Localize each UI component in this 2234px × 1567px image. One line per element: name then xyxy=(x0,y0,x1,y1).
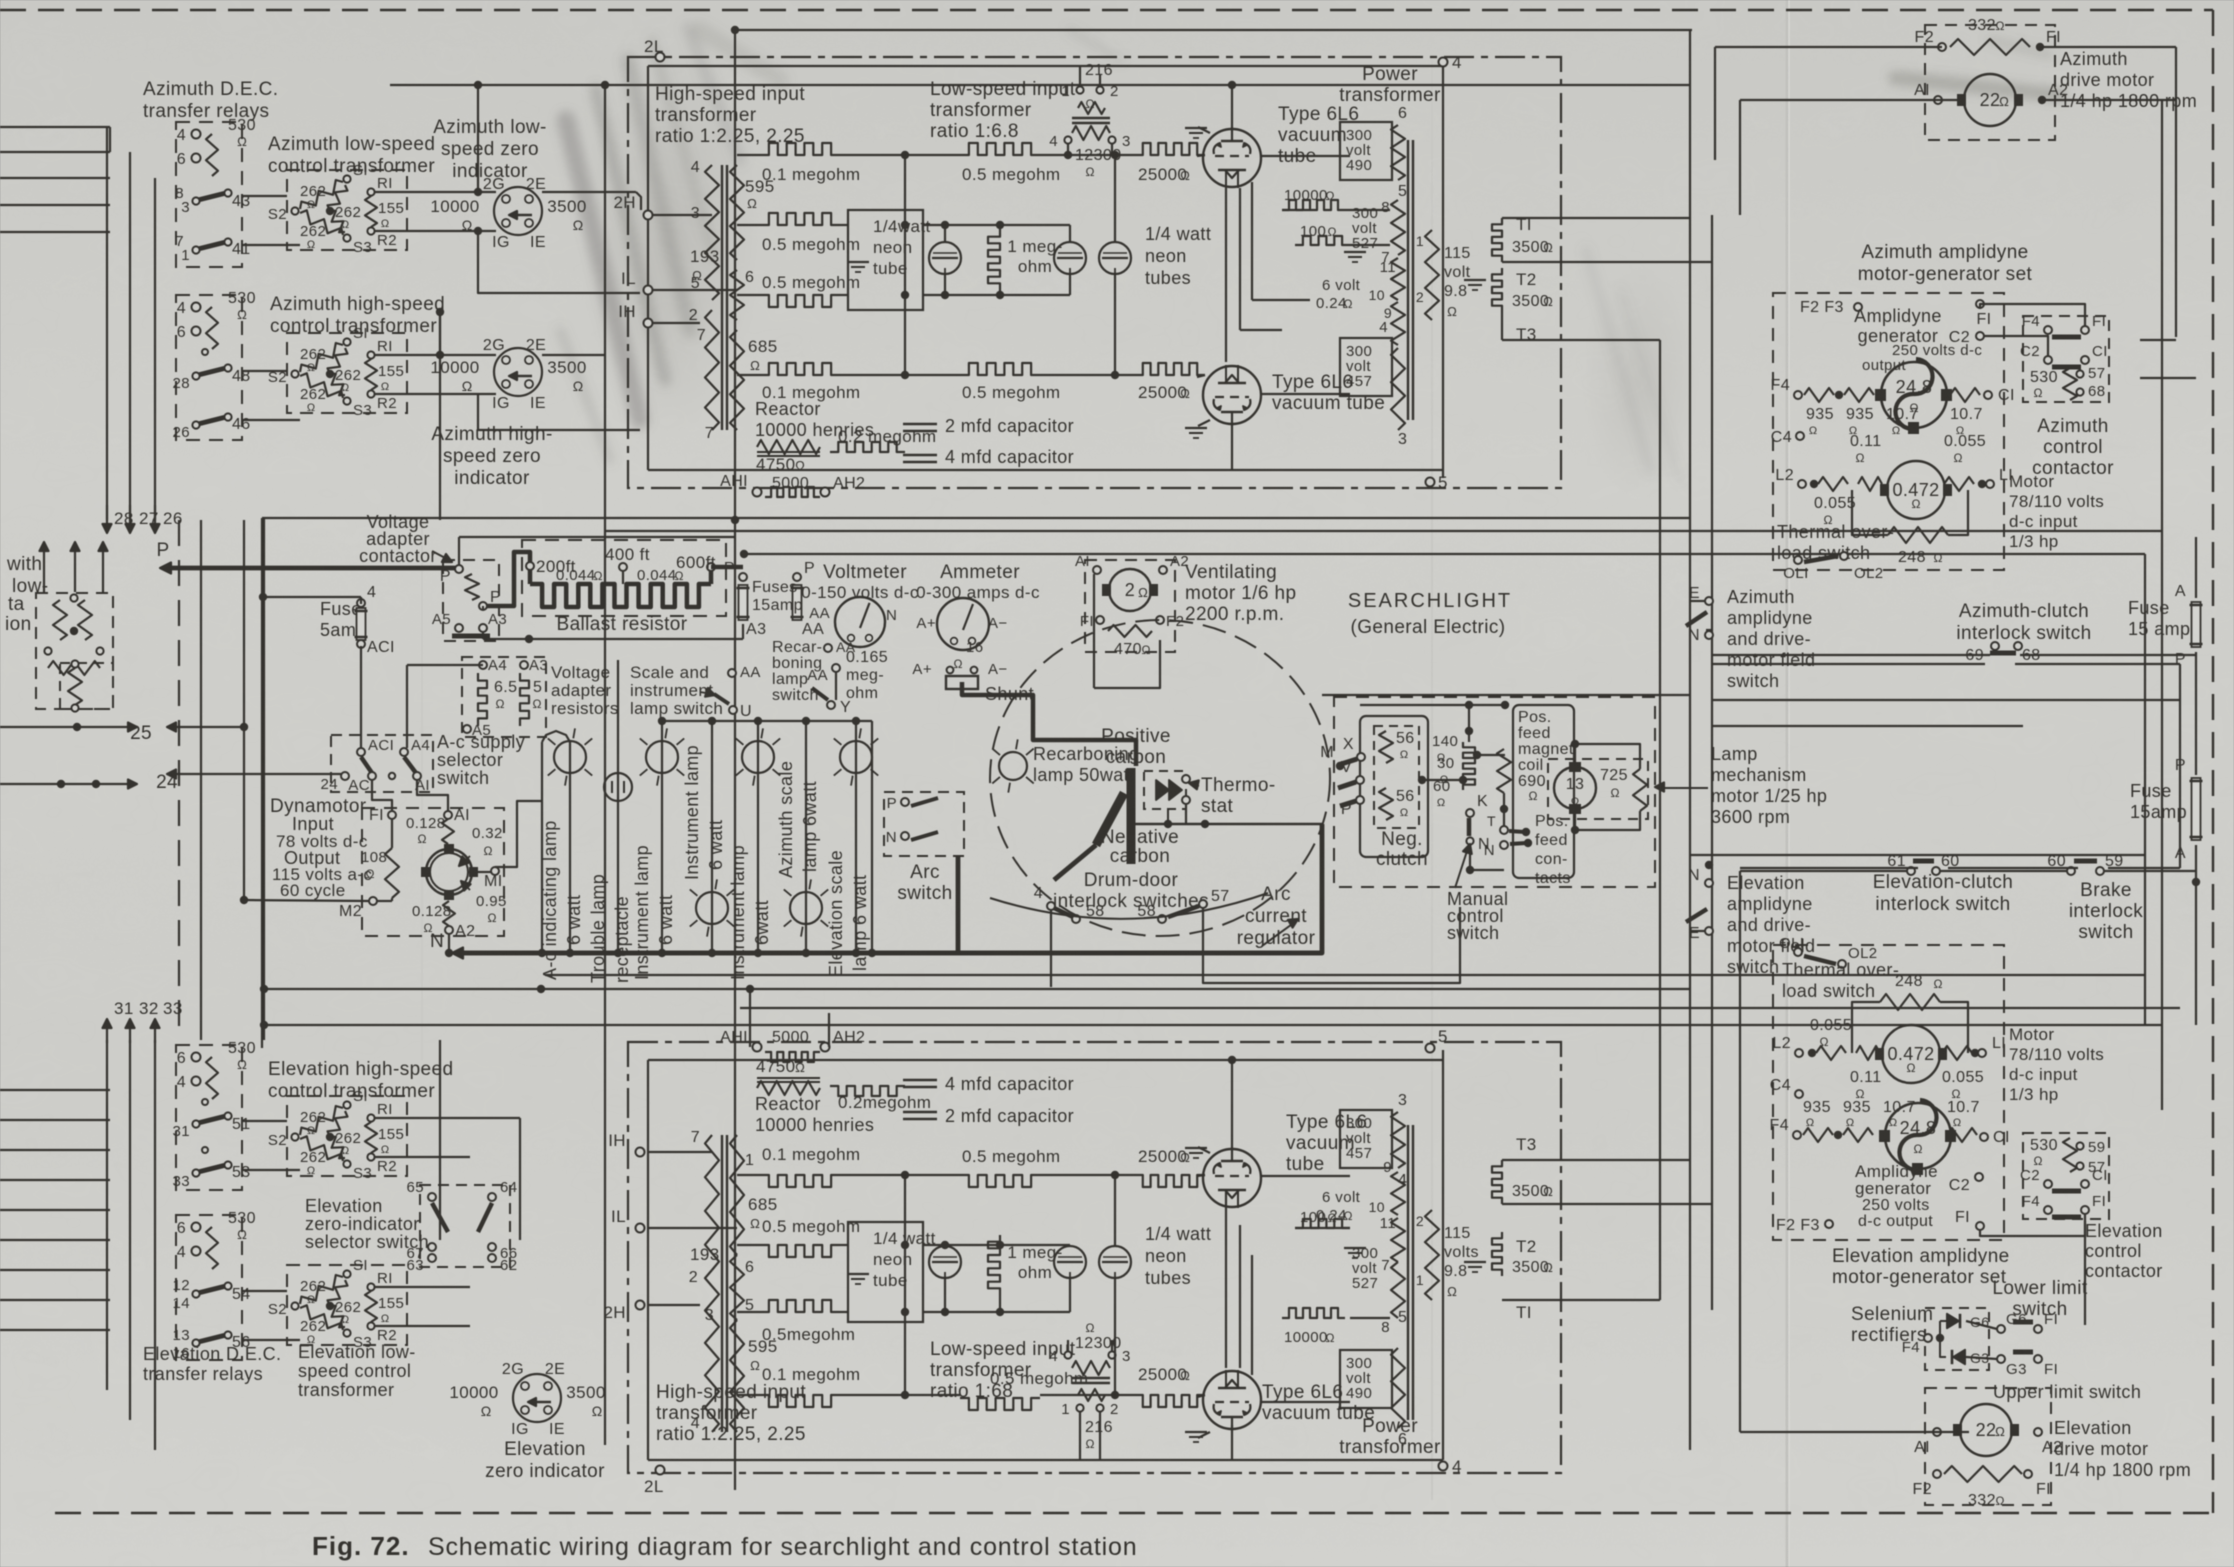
left mid dashed border x179 xyxy=(178,520,180,1040)
wire from contact 4 down xyxy=(1050,910,1052,987)
power transformer secondary 115v bottom xyxy=(1425,1210,1439,1300)
terminal IL bottom xyxy=(636,1224,645,1233)
amplifier inner frame bottom xyxy=(648,1459,1443,1461)
6L6 tube bottom unit upper xyxy=(1203,1149,1261,1207)
junction dots on buses xyxy=(601,81,609,89)
left mid bus x201 xyxy=(200,520,202,1040)
pos feed motor 13 dashed box xyxy=(1548,759,1648,819)
wire field switch connects xyxy=(1690,600,1705,602)
amp outputs to right bottom xyxy=(1502,1159,1690,1161)
far right vertical x2145 xyxy=(2144,554,2146,1025)
amp bottom row2 wires xyxy=(737,1244,760,1246)
T N contacts xyxy=(1500,826,1508,834)
elev relay1 contact 53 xyxy=(198,1165,226,1172)
positive carbon feed wires xyxy=(962,682,1136,766)
wire elevation F1 to contactor xyxy=(1980,1214,2085,1236)
instrument lamp 2 xyxy=(711,721,713,953)
amp row2 wires xyxy=(737,224,760,226)
main vertical bus x440 xyxy=(439,310,441,520)
reactor coil xyxy=(757,440,820,454)
tube wires bottom unit xyxy=(1231,1425,1233,1460)
high-speed input transformer windings top xyxy=(705,165,719,300)
left wires into middle xyxy=(261,518,263,558)
left mid bus x264 xyxy=(263,518,265,1040)
AA U switch xyxy=(728,669,736,677)
dynamotor circle xyxy=(426,849,472,895)
resistor 332 elevation xyxy=(1933,1470,1941,1478)
dynamotor box xyxy=(362,808,504,936)
a-c indicating lamp xyxy=(569,742,571,953)
resistor 0.5 megohm row2 xyxy=(760,213,840,225)
brake interlock xyxy=(2067,867,2075,875)
capacitor 4 mfd bottom xyxy=(903,1079,937,1082)
relay1 contact 43 xyxy=(198,193,226,200)
left data box upper xyxy=(36,593,113,709)
neon tube 3 bottom xyxy=(1099,1246,1131,1278)
dynamotor F1 A1 xyxy=(388,811,396,819)
interlock arc solid xyxy=(990,893,1268,919)
neon3 column wires xyxy=(1114,155,1116,242)
wire mid right horizontals xyxy=(1712,699,2180,701)
wire top bus y85 xyxy=(390,84,1690,86)
elevation low-speed control transformer xyxy=(287,1265,407,1345)
amp vertical x905 bottom xyxy=(904,1175,906,1395)
amp row1 wires xyxy=(737,154,760,156)
wire drive motor vertical right xyxy=(2175,47,2177,337)
elevation amplidyne resistors xyxy=(1793,1131,1801,1139)
C4 L2 row xyxy=(1796,432,1804,440)
outer dashed border right xyxy=(2212,10,2214,1513)
neon tube 1 bottom xyxy=(929,1246,961,1278)
6L6 tube bottom unit lower xyxy=(1203,1371,1261,1429)
elevation drive motor box xyxy=(1925,1388,2051,1505)
left arrows right xyxy=(0,726,133,728)
long wire y1008 xyxy=(740,1007,2180,1009)
resistor 0.2 megohm xyxy=(830,442,905,452)
wires azimuth drive xyxy=(1715,46,1942,48)
long wire y989 xyxy=(264,988,1690,990)
resistor 0.1 megohm bottom row4 xyxy=(760,1395,840,1407)
mid horizontal bus y518 xyxy=(262,517,1690,519)
azimuth high-speed zero indicator xyxy=(494,348,542,396)
outer dashed border bottom xyxy=(55,1512,2213,1514)
left stub lines bottom xyxy=(0,1089,110,1091)
trouble lamp receptacle xyxy=(617,660,619,953)
clutch top wires xyxy=(1322,694,1690,696)
terminal 5 bottom xyxy=(1426,478,1435,487)
quarter watt neon tube box bottom xyxy=(848,1222,923,1322)
resistor 0.1 megohm top row xyxy=(760,143,840,155)
selector lower contacts xyxy=(428,1254,436,1262)
searchlight dashed circle xyxy=(990,620,1330,936)
power transformer pin wires xyxy=(1392,151,1398,153)
relay box azimuth 2 xyxy=(176,295,242,440)
resistor 0.1 megohm row4 xyxy=(760,363,840,375)
main vertical bus x262 xyxy=(261,518,263,1048)
P feeder arrow left xyxy=(163,566,459,571)
terminal 2H xyxy=(644,211,653,220)
K contact xyxy=(1466,809,1474,817)
tube1 wires xyxy=(1231,85,1233,128)
capacitor 4 mfd xyxy=(903,454,937,457)
lamp top connector xyxy=(662,720,872,722)
resistor 0.2 megohm bottom xyxy=(830,1086,905,1096)
amp unit inner frame top bottomunit xyxy=(648,1059,1443,1061)
resistor 25000 top xyxy=(1135,143,1205,155)
relay1 contact 41 xyxy=(198,242,226,249)
amp outputs to right xyxy=(1502,217,1690,219)
long wire y1025 xyxy=(264,1024,2162,1026)
main vertical bus x605 xyxy=(604,85,606,1445)
resistor 0.5 megohm mid bottom xyxy=(960,1175,1040,1187)
terminal 2L xyxy=(656,53,665,62)
paper mottle xyxy=(0,0,1,1)
wire contactor to right buses xyxy=(2089,329,2196,331)
mid horizontal bus y531 xyxy=(605,530,2162,532)
recarboning lamp xyxy=(999,752,1027,780)
resistor 530 relay1 xyxy=(206,134,218,176)
amplifier unit dash-dot box bottom xyxy=(628,1042,1561,1473)
amplidyne motor azimuth xyxy=(1887,461,1945,519)
wire 28 27 26 arrows xyxy=(106,505,108,530)
resistor 530 relay2 xyxy=(206,307,218,349)
neon tube 1 xyxy=(929,242,961,274)
resistor 530 elev relay1 xyxy=(206,1057,218,1099)
wire lamp mech to right xyxy=(1690,789,1698,791)
elevation zero indicator xyxy=(513,1374,561,1422)
resistor 0.5 megohm mid2 xyxy=(960,363,1040,375)
elevation clutch interlock xyxy=(1907,867,1915,875)
terminal 2L bottom xyxy=(656,1466,665,1475)
wire left stubs angled xyxy=(109,127,111,152)
instrument lamp 3 xyxy=(757,721,759,953)
pos feed clutch outer dashed box xyxy=(1334,697,1655,887)
resistor 1 megohm block xyxy=(988,230,1000,290)
amplifier unit dash-dot box top xyxy=(628,57,1561,488)
6L6 tube top xyxy=(1203,129,1261,187)
right vertical bus x1690 xyxy=(1689,30,1691,1450)
terminal IH xyxy=(644,319,653,328)
terminal 4 bottom xyxy=(1439,1462,1448,1471)
wires R1 R2 to high-speed indicator xyxy=(375,354,496,356)
resistor 25000 bottom xyxy=(1135,363,1205,375)
elevation drive motor xyxy=(1960,1404,2012,1456)
wire A3 row xyxy=(482,632,484,639)
wire azimuth interlock row right xyxy=(1712,654,1990,656)
resistor 332 azimuth drive xyxy=(1938,43,1946,51)
wire elevation C2 to contactor xyxy=(1979,1180,2048,1188)
amp row4 wires xyxy=(737,374,760,376)
elev relay2 contact 56 xyxy=(198,1335,226,1342)
low-speed input transformer xyxy=(1076,86,1083,93)
azimuth high-speed control transformer xyxy=(287,333,407,413)
C2 F1 elevation xyxy=(1975,1173,1983,1181)
resistor 0.5 megohm mid xyxy=(960,143,1040,155)
C2 terminal xyxy=(1976,332,1984,340)
resistor 25000 bottom row2 xyxy=(1135,1395,1205,1407)
T1 resistor xyxy=(1492,218,1502,262)
resistor 0.5 megohm mid2 bottom xyxy=(960,1398,1040,1410)
selector switch box xyxy=(420,1185,510,1267)
ballast resistor thick wiring xyxy=(482,606,484,610)
wire x1740 elevation column xyxy=(1739,871,1741,1432)
elevation control contactor box xyxy=(2023,1133,2109,1219)
C2 C1 contact xyxy=(2044,356,2052,364)
searchlight thick bus xyxy=(956,856,961,953)
T2 resistor xyxy=(1492,268,1502,312)
fuses 15 amp xyxy=(739,573,747,581)
elevation amplidyne generator xyxy=(1885,1103,1951,1169)
ventilating motor xyxy=(1085,560,1175,652)
resistor 0.5 megohm row3 xyxy=(760,295,840,307)
wires elevation transformers xyxy=(242,1120,287,1122)
amp bottom row4 wires xyxy=(737,1394,760,1396)
inner clutch frame xyxy=(1360,716,1428,857)
voltage adapter contactor box xyxy=(443,560,499,641)
wire contactor F1 down to limit switch xyxy=(2084,1221,2086,1325)
wire amplidyne F1 to contactor xyxy=(1980,304,2085,326)
relay box elevation 2 xyxy=(176,1215,242,1360)
high-speed input transformer windings bottom xyxy=(705,1135,719,1270)
wire right side from T outputs xyxy=(1659,340,1661,1300)
resistor 140 30 60 xyxy=(1463,742,1475,790)
56 resistors xyxy=(1374,726,1419,828)
wire top bus y30 xyxy=(735,29,1692,31)
mid horizontal bus y545 xyxy=(744,553,2145,555)
lamp columns xyxy=(542,731,570,742)
F4 F1 contact elevation xyxy=(2044,1206,2052,1214)
neon3 column wires bottom xyxy=(1114,1175,1116,1246)
terminal 2H bottom xyxy=(636,1301,645,1310)
wire y726 right xyxy=(1712,725,2023,727)
resistor 248 elevation xyxy=(1880,994,1940,1010)
far right vertical x2162 xyxy=(2161,531,2163,1110)
voltage adapter resistors box xyxy=(462,657,546,737)
C4 elevation xyxy=(1795,1090,1803,1098)
azimuth low-speed zero indicator xyxy=(494,187,542,235)
azimuth low-speed control transformer xyxy=(287,170,407,250)
capacitor 2 mfd xyxy=(903,423,937,426)
wire elevation interlock row xyxy=(1740,867,1918,869)
elevation amplidyne dashed box xyxy=(1773,945,2004,1240)
azimuth drive motor box xyxy=(1925,25,2055,140)
relay box azimuth 1 xyxy=(176,122,242,267)
elevation high-speed control transformer xyxy=(287,1096,407,1176)
elev relay2 contact 54 xyxy=(198,1286,226,1293)
resistor AH1 5000 AH2 xyxy=(753,488,762,497)
ballast resistor xyxy=(530,584,711,607)
manual control contacts xyxy=(1357,753,1365,761)
outer dashed border top xyxy=(0,9,2213,11)
wires field switch azimuth xyxy=(1706,629,1712,631)
amp bottom row1 wires xyxy=(737,1174,760,1176)
wire 31 32 33 arrows xyxy=(106,1022,108,1043)
N feeder arrow left xyxy=(455,951,1322,956)
tube2 wires xyxy=(1231,425,1233,470)
elevation field switch xyxy=(1705,879,1713,887)
elevation amplidyne motor xyxy=(1882,1025,1940,1083)
azimuth control contactor box xyxy=(2023,316,2109,402)
left data box arrows up xyxy=(43,545,45,592)
long wire y975 xyxy=(545,974,2145,976)
far right fuse wire x2196 xyxy=(2195,537,2197,598)
resistor 248 azimuth xyxy=(1888,527,1948,543)
25 arrow xyxy=(170,726,244,728)
wire azimuth interlock row xyxy=(1712,663,1985,665)
capacitor 2 mfd bottom xyxy=(903,1111,937,1114)
azimuth drive motor xyxy=(1964,74,2016,126)
quarter watt neon tube box xyxy=(848,210,923,310)
wires selector xyxy=(360,646,362,748)
negative carbon xyxy=(1096,793,1124,845)
vertical wires into bottom amp xyxy=(749,989,751,1047)
thermostat N wire xyxy=(1131,823,1322,825)
terminal 5 top xyxy=(1426,1044,1435,1053)
dynamotor A1 wire to selector xyxy=(417,780,448,811)
24 arrow xyxy=(170,773,345,775)
dynamotor M2 xyxy=(369,897,377,905)
azimuth scale lamp xyxy=(805,721,807,953)
resistor 530 elev relay2 xyxy=(206,1227,218,1269)
upper limit switch xyxy=(1997,1355,2005,1363)
6L6 tube bottom xyxy=(1203,366,1261,424)
ls transformer wires bottom xyxy=(1079,1412,1081,1460)
relay2 contact 48 xyxy=(198,368,226,375)
wires around azimuth contactor xyxy=(2140,339,2176,341)
amp unit inner frame bottom xyxy=(648,469,1443,471)
neon tube 3 xyxy=(1099,242,1131,274)
left vertical buses top xyxy=(106,127,108,520)
contactor A5 A3 contacts xyxy=(455,624,463,632)
wire y537 xyxy=(459,536,735,538)
resistor 25000 bottom row1 xyxy=(1135,1175,1205,1187)
wire amplidyne C1 to contactor xyxy=(1999,367,2120,395)
terminal 4 top xyxy=(1439,58,1448,67)
elevation scale lamp xyxy=(855,721,857,953)
neon tube 2 bottom xyxy=(1054,1246,1086,1278)
pos feed motor 13 xyxy=(1554,767,1596,809)
wires elevation drive xyxy=(1740,1431,1969,1433)
main vertical bus x735 xyxy=(734,30,736,1490)
shunt xyxy=(946,676,978,689)
dynamotor M1 xyxy=(491,867,499,875)
amplidyne generator azimuth xyxy=(1881,362,1947,428)
azimuth amplidyne dashed box xyxy=(1773,293,2004,570)
wire left stub lines top xyxy=(0,126,110,128)
relay box elevation 1 xyxy=(176,1045,242,1190)
relay2 contact 46 xyxy=(198,417,226,424)
ls transformer wires xyxy=(1079,66,1081,86)
F4 F1 contact xyxy=(2044,326,2052,334)
wire amplidyne C2 to contactor xyxy=(1984,336,2048,356)
arc switch xyxy=(884,792,964,856)
elev relay1 contact 51 xyxy=(198,1116,226,1123)
vent motor down wire xyxy=(1093,574,1095,688)
amp vertical x905 xyxy=(904,155,906,375)
C2 C1 contact elevation xyxy=(2044,1180,2052,1188)
left vertical buses bottom xyxy=(106,1040,108,1390)
amplidyne resistors azimuth xyxy=(1794,391,1802,399)
power transformer secondary 115v xyxy=(1425,230,1439,320)
wires relays to transformers xyxy=(242,195,287,197)
amp row3 wires xyxy=(737,294,760,296)
left mid bus x244 xyxy=(243,520,245,900)
resistor 1 megohm block bottom xyxy=(988,1235,1000,1295)
resistor 0.1 megohm bottom row1 xyxy=(760,1175,840,1187)
azimuth field switch xyxy=(1705,597,1713,605)
thermal overload elevation xyxy=(1794,948,1802,956)
instrument lamp 1 xyxy=(661,721,663,953)
amp bottom row3 wires xyxy=(737,1311,760,1313)
pos feed solid frame xyxy=(1513,705,1574,878)
wires R1 R2 to low-speed indicator xyxy=(375,191,496,193)
amplifier inner frame xyxy=(648,65,1443,67)
neon tube 2 xyxy=(1054,242,1086,274)
terminal IL xyxy=(644,286,653,295)
resistor 0.5 megohm bottom row3 xyxy=(760,1300,840,1312)
T2 resistor bottom xyxy=(1492,1232,1502,1276)
wire elevation interlock row xyxy=(1740,870,1907,872)
thermostat xyxy=(1144,771,1186,809)
resistor 0.5 megohm bottom row2 xyxy=(760,1245,840,1257)
right vertical bus x1712 xyxy=(1711,215,1713,1310)
resistor AH1 5000 AH2 bottom xyxy=(753,1043,762,1052)
terminal IH bottom xyxy=(636,1148,645,1157)
smudge streaks top xyxy=(560,28,2060,480)
paper crease xyxy=(1786,0,1789,1567)
left data box lower xyxy=(60,663,113,709)
low-speed input transformer bottom xyxy=(1064,1351,1071,1358)
